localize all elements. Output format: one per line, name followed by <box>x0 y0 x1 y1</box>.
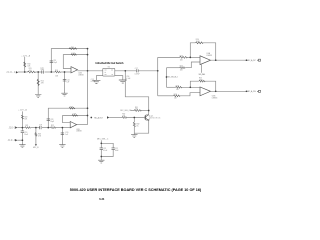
svg-text:LM833: LM833 <box>212 97 218 99</box>
capacitor C12 series row1 <box>42 70 44 73</box>
resistor R29 input U3B plus <box>173 95 180 97</box>
svg-text:MIC_GEL_IN_2: MIC_GEL_IN_2 <box>168 77 179 79</box>
svg-text:R24: R24 <box>196 39 199 41</box>
svg-text:10uF: 10uF <box>41 69 45 71</box>
capacitor C23 on outer loop U2B <box>47 119 50 120</box>
svg-text:0.1uF: 0.1uF <box>103 150 107 152</box>
svg-text:1uF: 1uF <box>67 81 70 83</box>
wire cap branch to ground row1 <box>64 72 66 93</box>
resistor R22 series row2 <box>51 127 57 129</box>
svg-text:C15: C15 <box>91 79 94 81</box>
wire MID_RAIL stub <box>201 65 203 73</box>
svg-text:MIC_B: MIC_B <box>33 147 39 149</box>
terminal MIC_A_2-N <box>257 90 261 92</box>
wire inner feedback loop U2B <box>63 116 88 123</box>
wire row2 main input <box>17 127 25 129</box>
resistor R19 inner loop U2B <box>72 115 78 117</box>
svg-text:J10-1: J10-1 <box>6 72 16 74</box>
svg-text:10uF: 10uF <box>115 150 119 152</box>
svg-text:10pF: 10pF <box>50 121 54 123</box>
ground row1 branch <box>35 95 41 98</box>
wire feedback loop U3A <box>190 43 195 58</box>
svg-text:R26: R26 <box>180 55 183 57</box>
wire +12V bias row1 <box>24 57 26 72</box>
op-amp U2A <box>71 67 84 77</box>
ground transistor rail <box>131 135 137 138</box>
wire IR box to junction <box>115 70 137 72</box>
svg-text:C23: C23 <box>50 119 53 121</box>
resistor R13 series row1 <box>55 71 61 73</box>
svg-text:C14: C14 <box>67 79 70 81</box>
wire branch stub row2 <box>35 128 37 145</box>
svg-text:+12V_A: +12V_A <box>21 54 30 57</box>
svg-text:C17: C17 <box>135 68 138 70</box>
wire MIC_GEL_IN vertical <box>166 68 168 88</box>
svg-text:MIC_GEL_ON: MIC_GEL_ON <box>120 110 132 112</box>
wire feedback loop U3B <box>190 81 199 87</box>
svg-text:6-34: 6-34 <box>99 197 104 201</box>
svg-text:LM833: LM833 <box>76 131 81 133</box>
wire to U3B inverting input <box>167 86 176 88</box>
wire emitter rail <box>134 120 148 133</box>
wire U2A output <box>78 70 103 72</box>
svg-text:J10-4: J10-4 <box>8 140 16 142</box>
wire to U3B non-inverting input <box>158 95 174 97</box>
resistor R10 on bias row1 <box>24 62 26 67</box>
wire IR box right ground leg <box>115 76 123 80</box>
svg-text:MIC_A_2-N: MIC_A_2-N <box>247 90 256 93</box>
resistor R12 vertical to ground row1 <box>37 79 39 86</box>
resistor R27 to U3A plus <box>180 67 186 69</box>
net tap arrow MIC_A_OUT <box>107 116 109 118</box>
svg-text:LM833: LM833 <box>78 74 83 76</box>
wire outer feedback loop U2A <box>51 49 87 72</box>
svg-text:R30: R30 <box>122 114 125 116</box>
capacitor C19 bias to return row2 <box>21 131 24 132</box>
svg-text:R10: R10 <box>28 63 31 65</box>
relay K1 infra-red switch box <box>103 67 115 76</box>
resistor R16 outer loop U2A <box>69 48 77 50</box>
resistor R21 series row2 <box>25 127 31 129</box>
svg-text:R25: R25 <box>199 77 202 79</box>
svg-text:R18: R18 <box>70 107 73 109</box>
wire MIC_GEL_ON <box>131 110 134 112</box>
svg-text:R20: R20 <box>24 116 27 118</box>
svg-text:R21: R21 <box>25 125 28 127</box>
wire right router vertical <box>157 57 159 95</box>
wire outer feedback loop U2B <box>48 108 87 127</box>
svg-text:MIC_A_2-P: MIC_A_2-P <box>247 59 256 62</box>
wire branch R to ground row1 <box>37 72 39 95</box>
svg-text:2N3906: 2N3906 <box>151 117 161 119</box>
wire U3A output <box>211 59 247 61</box>
svg-text:C21: C21 <box>103 148 106 150</box>
op-amp U3A <box>200 52 212 64</box>
op-amp U3B <box>200 87 217 99</box>
svg-text:C18: C18 <box>39 125 42 127</box>
svg-text:R12: R12 <box>41 81 44 83</box>
svg-text:C12: C12 <box>41 67 44 69</box>
svg-text:C13: C13 <box>53 60 56 62</box>
wire base resistor branch <box>133 118 135 123</box>
svg-text:R31: R31 <box>135 107 138 109</box>
wire to U3A non-inverting input <box>167 67 180 69</box>
capacitor C17 series after IR box <box>136 69 138 72</box>
svg-text:10uF: 10uF <box>24 134 28 136</box>
svg-text:R27: R27 <box>180 66 183 68</box>
capacitor C20 branch to ground row2 <box>61 133 64 134</box>
capacitor C18 series row2 <box>39 126 41 129</box>
wire mute route from audio line <box>125 71 148 111</box>
svg-text:R16: R16 <box>71 47 74 49</box>
svg-text:5000-420 USER INTERFACE BOARD: 5000-420 USER INTERFACE BOARD VER C SCHE… <box>70 188 201 192</box>
resistor R18 outer loop U2B <box>69 107 75 109</box>
capacitor C13 on outer loop U2A <box>50 61 53 62</box>
resistor R23 branch row2 <box>35 133 37 137</box>
svg-text:C20: C20 <box>65 132 68 134</box>
svg-text:MID_RAIL: MID_RAIL <box>199 73 206 76</box>
wire +12V bias row2 with cap to return <box>21 111 23 131</box>
svg-text:R11: R11 <box>29 68 32 70</box>
svg-text:R32: R32 <box>137 124 140 126</box>
svg-text:C19: C19 <box>24 132 27 134</box>
resistor R25 feedback U3B <box>199 80 205 82</box>
capacitor C22 right of pair <box>112 148 115 149</box>
wire IR box left ground leg <box>96 76 103 81</box>
svg-text:R23: R23 <box>38 134 41 136</box>
ground cap pair <box>98 160 104 163</box>
ground row1 cap branch <box>61 93 67 96</box>
ground IR box right <box>119 80 127 83</box>
svg-text:+12V_A: +12V_A <box>18 109 27 112</box>
resistor R17 inner loop U2A <box>71 54 77 56</box>
svg-text:0.47uF: 0.47uF <box>135 74 140 76</box>
svg-text:C16: C16 <box>126 76 129 78</box>
wire collector to MIC_GEL_ON line <box>148 111 150 115</box>
resistor R32 base branch <box>133 122 135 127</box>
op-amp U2B <box>70 122 81 133</box>
svg-text:R28: R28 <box>176 85 179 87</box>
resistor R30 series mic tap <box>122 117 127 119</box>
resistor R11 series row1 <box>28 71 36 73</box>
svg-text:100: 100 <box>29 70 32 72</box>
wire return connector row2 <box>17 139 22 141</box>
connector J10-1 <box>16 71 18 73</box>
svg-text:K1: K1 <box>108 67 110 69</box>
net stub arrow row2 branch <box>35 144 37 146</box>
wire inner feedback loop U2A <box>63 55 87 69</box>
resistor R20 on bias row2 <box>21 115 23 119</box>
resistor R28 input U3B minus <box>176 86 182 88</box>
resistor R26 input U3A <box>180 57 188 59</box>
terminal MIC_A_2-P <box>257 59 261 61</box>
wire row1 main input <box>18 71 28 73</box>
resistor R24 feedback U3A <box>195 42 203 44</box>
svg-text:J10-3: J10-3 <box>9 127 16 129</box>
svg-text:MIC_GEL_C: MIC_GEL_C <box>97 139 109 141</box>
ground row2 bias <box>19 145 25 148</box>
wire ground hang transistor <box>133 133 135 134</box>
wire U2B output <box>77 124 88 126</box>
transistor Q1 <box>144 115 150 121</box>
wire cap branch to ground row2 <box>61 128 63 145</box>
capacitor C21 left of pair <box>100 148 103 149</box>
svg-text:MIC_A_OUT: MIC_A_OUT <box>94 116 103 119</box>
junction dots <box>24 71 26 73</box>
svg-text:0.1uF: 0.1uF <box>91 81 95 83</box>
svg-text:C22: C22 <box>115 148 118 150</box>
svg-text:R22: R22 <box>51 125 54 127</box>
svg-text:0.1uF: 0.1uF <box>126 78 130 80</box>
resistor R31 MIC_GEL_ON <box>134 110 142 112</box>
connector J10-4 <box>15 139 17 141</box>
svg-text:Infra-Red Mic Gel Switch: Infra-Red Mic Gel Switch <box>96 61 124 65</box>
svg-text:10pF: 10pF <box>53 62 57 64</box>
ground IR box left <box>92 80 100 83</box>
wire to U3A inverting input <box>158 56 180 58</box>
svg-text:R29: R29 <box>174 94 177 96</box>
wire MIC net tap line <box>109 117 122 119</box>
connector J10-3 <box>15 126 17 128</box>
svg-text:1uF: 1uF <box>65 134 68 136</box>
ground row2 cap branch <box>59 145 65 148</box>
wire cap pair loop <box>101 143 113 148</box>
svg-text:LM833: LM833 <box>207 55 213 57</box>
wire long vertical bus <box>87 49 89 125</box>
svg-text:R13: R13 <box>55 70 58 72</box>
wire U3B output <box>211 90 247 92</box>
wire cap pair vertical <box>100 140 102 148</box>
capacitor C14 branch to ground row1 <box>63 80 66 81</box>
